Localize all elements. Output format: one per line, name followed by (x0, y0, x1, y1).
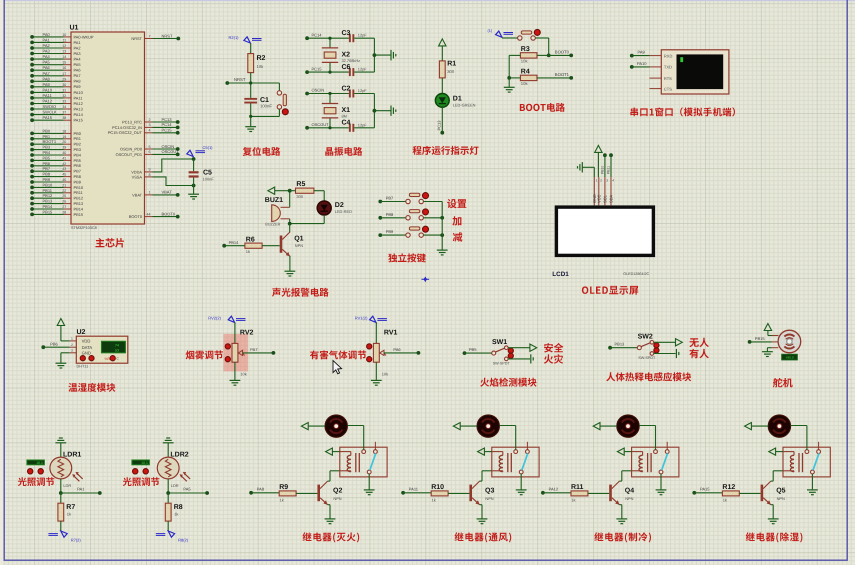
svg-text:NRST: NRST (162, 33, 173, 38)
svg-text:PB6: PB6 (43, 161, 51, 166)
svg-text:PB6: PB6 (74, 163, 81, 168)
resistor R11 (571, 484, 588, 502)
wire crystal caps common (373, 38, 377, 72)
svg-text:12: 12 (62, 44, 66, 48)
svg-text:PA0: PA0 (43, 32, 51, 37)
ground stub SW1 (531, 354, 533, 363)
svg-text:R10: R10 (431, 484, 444, 491)
svg-text:PA13: PA13 (74, 106, 83, 111)
wire motor to contact 继电器(除湿) (791, 426, 807, 450)
wire SW1 throw up (508, 347, 530, 349)
origin marker blue cross (422, 277, 430, 283)
LDR2 green display (132, 460, 150, 465)
svg-text:PA10: PA10 (637, 61, 647, 66)
net flag (1) blue (488, 29, 514, 37)
power symbol servo (764, 324, 778, 336)
ground relay 继电器(除湿) (807, 490, 818, 495)
wire Q5 emitter (771, 505, 773, 519)
svg-text:PC13: PC13 (437, 120, 442, 131)
svg-text:VBAT: VBAT (132, 192, 142, 197)
svg-text:12pF: 12pF (358, 122, 367, 127)
ground RV1 (371, 380, 382, 385)
svg-text:BOOT0: BOOT0 (162, 211, 176, 216)
wire D2 to node (290, 215, 325, 224)
svg-text:R7: R7 (66, 504, 75, 511)
selection highlight RV2 (223, 334, 248, 372)
power arrow motor 继电器(通风) (453, 423, 477, 430)
svg-text:22: 22 (62, 189, 66, 193)
svg-text:R2: R2 (257, 55, 266, 62)
svg-text:RV2(2): RV2(2) (208, 316, 221, 321)
svg-text:38: 38 (62, 116, 66, 120)
net PA9 (630, 50, 650, 58)
relay body 继电器(制冷) (632, 447, 679, 477)
svg-text:Q1: Q1 (294, 236, 303, 243)
LED D2 red (317, 201, 352, 215)
crystal X2 (322, 38, 360, 72)
svg-text:12pF: 12pF (358, 67, 367, 72)
microcontroller U1 STM32F103C8 (main chip) with PA/PB/PC pin rows (30, 25, 180, 231)
svg-text:LCD1: LCD1 (552, 271, 569, 278)
caption 独立按键 (388, 253, 426, 262)
wire R7 bottom (60, 521, 62, 531)
svg-text:PA7: PA7 (43, 71, 51, 76)
svg-text:1: 1 (596, 179, 598, 183)
svg-text:PB14: PB14 (229, 240, 240, 245)
wire R6 to base (262, 245, 280, 247)
svg-text:18: 18 (62, 129, 66, 133)
relay coil 继电器(除湿) (783, 452, 803, 473)
svg-text:R6: R6 (246, 236, 255, 243)
svg-text:19: 19 (62, 135, 66, 139)
relay coil 继电器(通风) (492, 452, 512, 473)
svg-text:SW2: SW2 (638, 333, 653, 340)
wire Q1 emitter down (289, 256, 291, 271)
svg-text:Q2: Q2 (333, 488, 342, 495)
LDR2 red dot 2 (143, 469, 148, 474)
resistor R2 (248, 54, 266, 73)
svg-text:28: 28 (62, 210, 66, 214)
svg-text:BOOT0: BOOT0 (129, 214, 143, 219)
svg-text:OSCOUT: OSCOUT (162, 149, 180, 154)
svg-text:C5: C5 (203, 170, 212, 177)
capacitor C1 (244, 97, 272, 109)
capacitor C2 (342, 85, 375, 97)
wire R3/R4 common (507, 55, 520, 79)
svg-text:PB4: PB4 (74, 152, 82, 157)
wire R3 left (509, 54, 520, 56)
svg-text:R4: R4 (521, 69, 530, 76)
relay body 继电器(灭火) (340, 447, 387, 477)
node button common 2 (440, 216, 444, 220)
svg-text:PB5: PB5 (469, 347, 477, 352)
svg-text:RXD: RXD (664, 53, 673, 58)
wire relay common 继电器(通风) (520, 474, 522, 490)
power arrow SW2 (676, 339, 683, 346)
net PA1 (61, 487, 102, 495)
OLED display LCD1 body (555, 205, 655, 257)
svg-text:PA0-WKUP: PA0-WKUP (74, 34, 94, 39)
wire Q2 emitter (328, 505, 330, 519)
wire motor to contact 继电器(制冷) (639, 426, 655, 450)
LDR2 red dot 1 (133, 469, 138, 474)
wire R1 to D1 (441, 78, 443, 94)
power arrow relay coil 继电器(除湿) (769, 448, 783, 455)
power arrow relay coil 继电器(灭火) (326, 448, 340, 455)
svg-text:3: 3 (71, 349, 73, 353)
resistor R9 (279, 484, 296, 502)
svg-text:PB4: PB4 (43, 150, 51, 155)
wire crystal caps common (373, 94, 377, 128)
svg-text:100nF: 100nF (260, 104, 272, 109)
ground relay 继电器(灭火) (364, 490, 375, 495)
svg-text:1: 1 (149, 191, 151, 195)
net flag R8(2) blue (156, 531, 189, 543)
switch SW2 SPDT (637, 333, 659, 360)
svg-text:R7(2): R7(2) (71, 538, 82, 543)
net flag R7(2) blue (48, 531, 81, 543)
svg-text:PB1: PB1 (74, 136, 81, 141)
svg-text:C4: C4 (342, 120, 351, 127)
svg-text:3: 3 (606, 179, 608, 183)
push button PB8 (406, 209, 442, 220)
DHT11 green display (102, 341, 126, 353)
label 有人 (689, 349, 709, 358)
capacitor C5 (189, 159, 215, 186)
svg-text:R11: R11 (571, 484, 584, 491)
svg-text:PB5: PB5 (43, 155, 51, 160)
ground above LDR2 (163, 438, 174, 457)
motor 继电器(除湿) (768, 415, 790, 437)
wire NRST row (227, 82, 279, 84)
switch SW1 SPDT (492, 339, 514, 366)
svg-text:3: 3 (149, 123, 151, 127)
svg-text:44: 44 (147, 212, 151, 216)
push button BOOT (502, 29, 549, 55)
push button PB7 (406, 193, 442, 204)
caption 主芯片 (96, 238, 125, 247)
wire bottom row reset (249, 115, 279, 118)
ground buttons (437, 250, 448, 255)
transistor Q2 (317, 481, 342, 505)
node BOOT0 (537, 54, 551, 58)
svg-text:BUZZER: BUZZER (265, 223, 280, 227)
wire R9 to Q2 (296, 492, 317, 494)
wire node to Q1 collector (289, 224, 291, 233)
svg-text:1k: 1k (280, 498, 284, 503)
DHT11 red dot 1 (80, 356, 85, 361)
svg-text:PB12: PB12 (43, 193, 54, 198)
svg-text:4: 4 (612, 179, 614, 183)
svg-text:PB9: PB9 (74, 179, 81, 184)
caption 火焰检测模块 (480, 378, 536, 387)
svg-text:OLED12864I2C: OLED12864I2C (623, 272, 649, 276)
svg-text:PB10: PB10 (43, 182, 54, 187)
terminal pin CTS (650, 86, 673, 91)
power symbol OLED (595, 145, 602, 177)
svg-text:NPN: NPN (485, 496, 493, 501)
wire Q4 emitter (619, 505, 621, 519)
svg-text:NPN: NPN (333, 496, 341, 501)
svg-text:16: 16 (62, 66, 66, 70)
svg-text:PB7: PB7 (43, 166, 51, 171)
servo motor body (772, 330, 801, 353)
svg-text:SW1: SW1 (492, 339, 507, 346)
resistor R5 (290, 181, 314, 199)
power arrow relay coil 继电器(制冷) (617, 448, 631, 455)
wire SCL (604, 155, 606, 177)
svg-text:33: 33 (62, 100, 66, 104)
ground DHT11 (56, 353, 70, 368)
svg-text:1k: 1k (246, 249, 250, 254)
svg-text:25: 25 (62, 194, 66, 198)
svg-text:PA6: PA6 (74, 68, 81, 73)
caption BOOT电路 (520, 103, 565, 112)
svg-text:PA9: PA9 (638, 50, 646, 55)
sheet outer margin top strip (0, 0, 855, 1)
svg-text:300: 300 (447, 69, 455, 74)
svg-text:Q3: Q3 (485, 488, 494, 495)
svg-text:SDA: SDA (609, 194, 614, 203)
svg-text:15: 15 (62, 61, 66, 65)
terminal screen (677, 54, 724, 89)
wire RV2 bottom (234, 362, 236, 380)
svg-text:VCC: VCC (596, 194, 601, 203)
svg-text:C5(1): C5(1) (203, 145, 214, 150)
svg-text:RV1: RV1 (384, 330, 398, 337)
svg-text:2: 2 (71, 343, 73, 347)
transistor Q3 (469, 481, 494, 505)
svg-text:PB10: PB10 (600, 166, 604, 174)
node C5 top (192, 157, 196, 161)
svg-text:PB8: PB8 (43, 172, 51, 177)
label 设置 (447, 199, 466, 208)
DHT11 red dot 2 (89, 356, 94, 361)
svg-text:46: 46 (62, 178, 66, 182)
wire LDR1 bottom (59, 479, 63, 495)
wire Q5 collector (771, 471, 783, 481)
svg-text:37: 37 (62, 111, 66, 115)
caption 声光报警电路 (272, 288, 329, 297)
svg-text:RTS: RTS (664, 76, 672, 81)
svg-text:42: 42 (62, 162, 66, 166)
wire flag to R2 (250, 43, 252, 53)
svg-text:17: 17 (62, 72, 66, 76)
node alarm top (288, 189, 292, 193)
motor 继电器(制冷) (617, 415, 639, 437)
DHT11 %RH dot (105, 356, 120, 361)
resistor R1 (439, 61, 456, 78)
svg-text:10k: 10k (521, 81, 529, 86)
svg-text:PB7: PB7 (74, 169, 81, 174)
svg-text:PB15: PB15 (74, 212, 84, 217)
svg-text:R8: R8 (174, 504, 183, 511)
svg-text:29: 29 (62, 77, 66, 81)
ground Q4 (616, 519, 627, 524)
svg-text:SW-SPDT: SW-SPDT (638, 356, 656, 360)
svg-text:14: 14 (62, 55, 66, 59)
svg-text:PA8: PA8 (43, 76, 51, 81)
caption 光照调节 LDR1 (18, 477, 55, 486)
svg-text:9: 9 (149, 168, 151, 172)
sheet outer margin left strip (0, 0, 3, 565)
wire relay common 继电器(制冷) (660, 474, 662, 490)
resistor R3 (520, 46, 537, 63)
svg-text:VBAT: VBAT (162, 190, 173, 195)
svg-text:18.1: 18.1 (36, 461, 43, 465)
svg-text:27: 27 (62, 205, 66, 209)
ground Q2 (325, 519, 336, 524)
svg-text:32.768kHz: 32.768kHz (342, 58, 361, 63)
svg-text:PC15: PC15 (162, 128, 173, 133)
svg-text:PA12: PA12 (43, 99, 53, 104)
net label PB10 on SCL (600, 166, 604, 174)
wire LDR2 bottom (166, 479, 170, 495)
wire R12 to Q5 (739, 492, 760, 494)
svg-text:SCL: SCL (602, 194, 607, 203)
caption 继电器(灭火) (303, 532, 360, 542)
wire Q3 emitter (480, 505, 482, 519)
svg-text:LED-GREEN: LED-GREEN (453, 103, 476, 108)
node SCL top (603, 153, 607, 157)
buzzer BUZ1 (265, 197, 290, 227)
LDR1 red dot 1 (28, 469, 33, 474)
relay cyan lever 继电器(除湿) (813, 453, 819, 470)
caption 烟雾调节 (186, 350, 223, 359)
svg-text:PA1: PA1 (74, 40, 81, 45)
transistor Q5 (761, 481, 786, 505)
svg-text:PA2: PA2 (74, 45, 81, 50)
svg-text:Q5: Q5 (776, 488, 785, 495)
power symbol DHT11 (57, 319, 69, 341)
LDR1 red dot 2 (38, 469, 43, 474)
wire Q3 collector (480, 471, 492, 481)
caption 温湿度模块 (68, 383, 115, 392)
wire motor to contact 继电器(通风) (499, 426, 515, 450)
svg-text:45: 45 (62, 173, 66, 177)
photoresistor LDR1 (50, 452, 83, 488)
resistor R10 (431, 484, 448, 502)
svg-text:1k: 1k (432, 498, 436, 503)
svg-text:NPN: NPN (777, 496, 785, 501)
wire R5 to D2 (314, 191, 324, 201)
svg-text:PA1: PA1 (77, 487, 85, 492)
svg-text:13: 13 (62, 50, 66, 54)
net flag RV1(2) blue (355, 316, 387, 323)
svg-text:34: 34 (62, 105, 66, 109)
ground below C5 (188, 186, 199, 200)
svg-text:12pF: 12pF (358, 88, 367, 93)
net PB6 (41, 341, 69, 349)
svg-text:40: 40 (62, 151, 66, 155)
net PB7 (378, 196, 405, 204)
ground OLED (578, 162, 595, 177)
wire SDA (610, 155, 612, 177)
svg-text:PB13: PB13 (43, 199, 54, 204)
svg-text:10k: 10k (521, 58, 529, 63)
power arrow motor 继电器(除湿) (745, 423, 769, 430)
wire button common (441, 202, 443, 251)
ground above LDR1 (55, 438, 66, 457)
terminal cursor (680, 57, 683, 62)
svg-text:PC14: PC14 (162, 122, 173, 127)
svg-text:(1): (1) (488, 29, 493, 33)
svg-text:10: 10 (62, 33, 66, 37)
svg-text:5: 5 (149, 145, 151, 149)
svg-text:DATA: DATA (82, 345, 93, 350)
ground stub SW2 (676, 349, 678, 358)
svg-text:BOOT1: BOOT1 (555, 72, 570, 77)
svg-text:PA7: PA7 (250, 347, 258, 352)
svg-text:PA11: PA11 (409, 486, 419, 491)
svg-text:SW-SPDT: SW-SPDT (493, 361, 511, 365)
svg-text:CTS: CTS (664, 86, 672, 91)
svg-text:+90.0: +90.0 (785, 356, 794, 360)
potentiometer RV1 (367, 330, 398, 377)
wire buzzer top (289, 191, 291, 208)
svg-text:PB11: PB11 (43, 188, 53, 193)
capacitor C4 (342, 120, 375, 132)
svg-text:PB15: PB15 (43, 209, 54, 214)
svg-text:PA12: PA12 (74, 101, 83, 106)
svg-text:OSCOUT_PD1: OSCOUT_PD1 (116, 152, 142, 157)
svg-text:C2: C2 (342, 85, 351, 92)
transistor Q4 (609, 481, 634, 505)
svg-text:PC13: PC13 (162, 117, 173, 122)
capacitor C3 (342, 30, 375, 42)
svg-text:PA5: PA5 (43, 60, 51, 65)
svg-text:PA11: PA11 (43, 93, 53, 98)
photoresistor LDR2 (157, 452, 190, 488)
caption 舵机 (773, 378, 793, 388)
svg-text:PB7: PB7 (386, 196, 394, 201)
svg-text:PA10: PA10 (74, 90, 84, 95)
capacitor C6 (342, 64, 375, 76)
label 加 (452, 216, 461, 225)
caption 继电器(制冷) (594, 532, 651, 542)
ground Q5 (768, 519, 779, 524)
svg-text:PC15-OSC32_OUT: PC15-OSC32_OUT (108, 130, 143, 135)
wire motor to contact 继电器(灭火) (347, 426, 363, 450)
label 火灾 (544, 354, 563, 364)
servo angle display (782, 354, 798, 360)
svg-text:NRST: NRST (234, 77, 246, 82)
svg-text:LDR1: LDR1 (63, 452, 81, 459)
svg-text:PA5: PA5 (183, 487, 191, 492)
net PB15 servo (748, 336, 772, 344)
wire SW1 throw down (508, 358, 530, 360)
label 安全 (544, 343, 563, 353)
svg-text:GND: GND (82, 351, 91, 356)
svg-text:R5: R5 (296, 181, 305, 188)
svg-text:VDDA: VDDA (131, 169, 142, 174)
motor 继电器(灭火) (325, 415, 347, 437)
svg-text:12pF: 12pF (358, 33, 367, 38)
wire R8 bottom (167, 521, 169, 531)
wire relay common 继电器(灭火) (368, 474, 370, 490)
LDR1 green display (27, 460, 45, 465)
svg-text:BOOT0: BOOT0 (555, 50, 570, 55)
svg-text:39: 39 (62, 146, 66, 150)
svg-text:R12: R12 (722, 484, 735, 491)
node C5 bottom (192, 184, 196, 188)
net PB9 (378, 229, 405, 237)
svg-text:SWDIO: SWDIO (43, 104, 57, 109)
wire D1 to PC13 node (440, 107, 444, 134)
svg-text:PB13: PB13 (615, 342, 626, 347)
svg-text:STM32F103C8: STM32F103C8 (71, 226, 97, 230)
OLED pin stubs GND VCC SCL SDA (592, 177, 615, 205)
